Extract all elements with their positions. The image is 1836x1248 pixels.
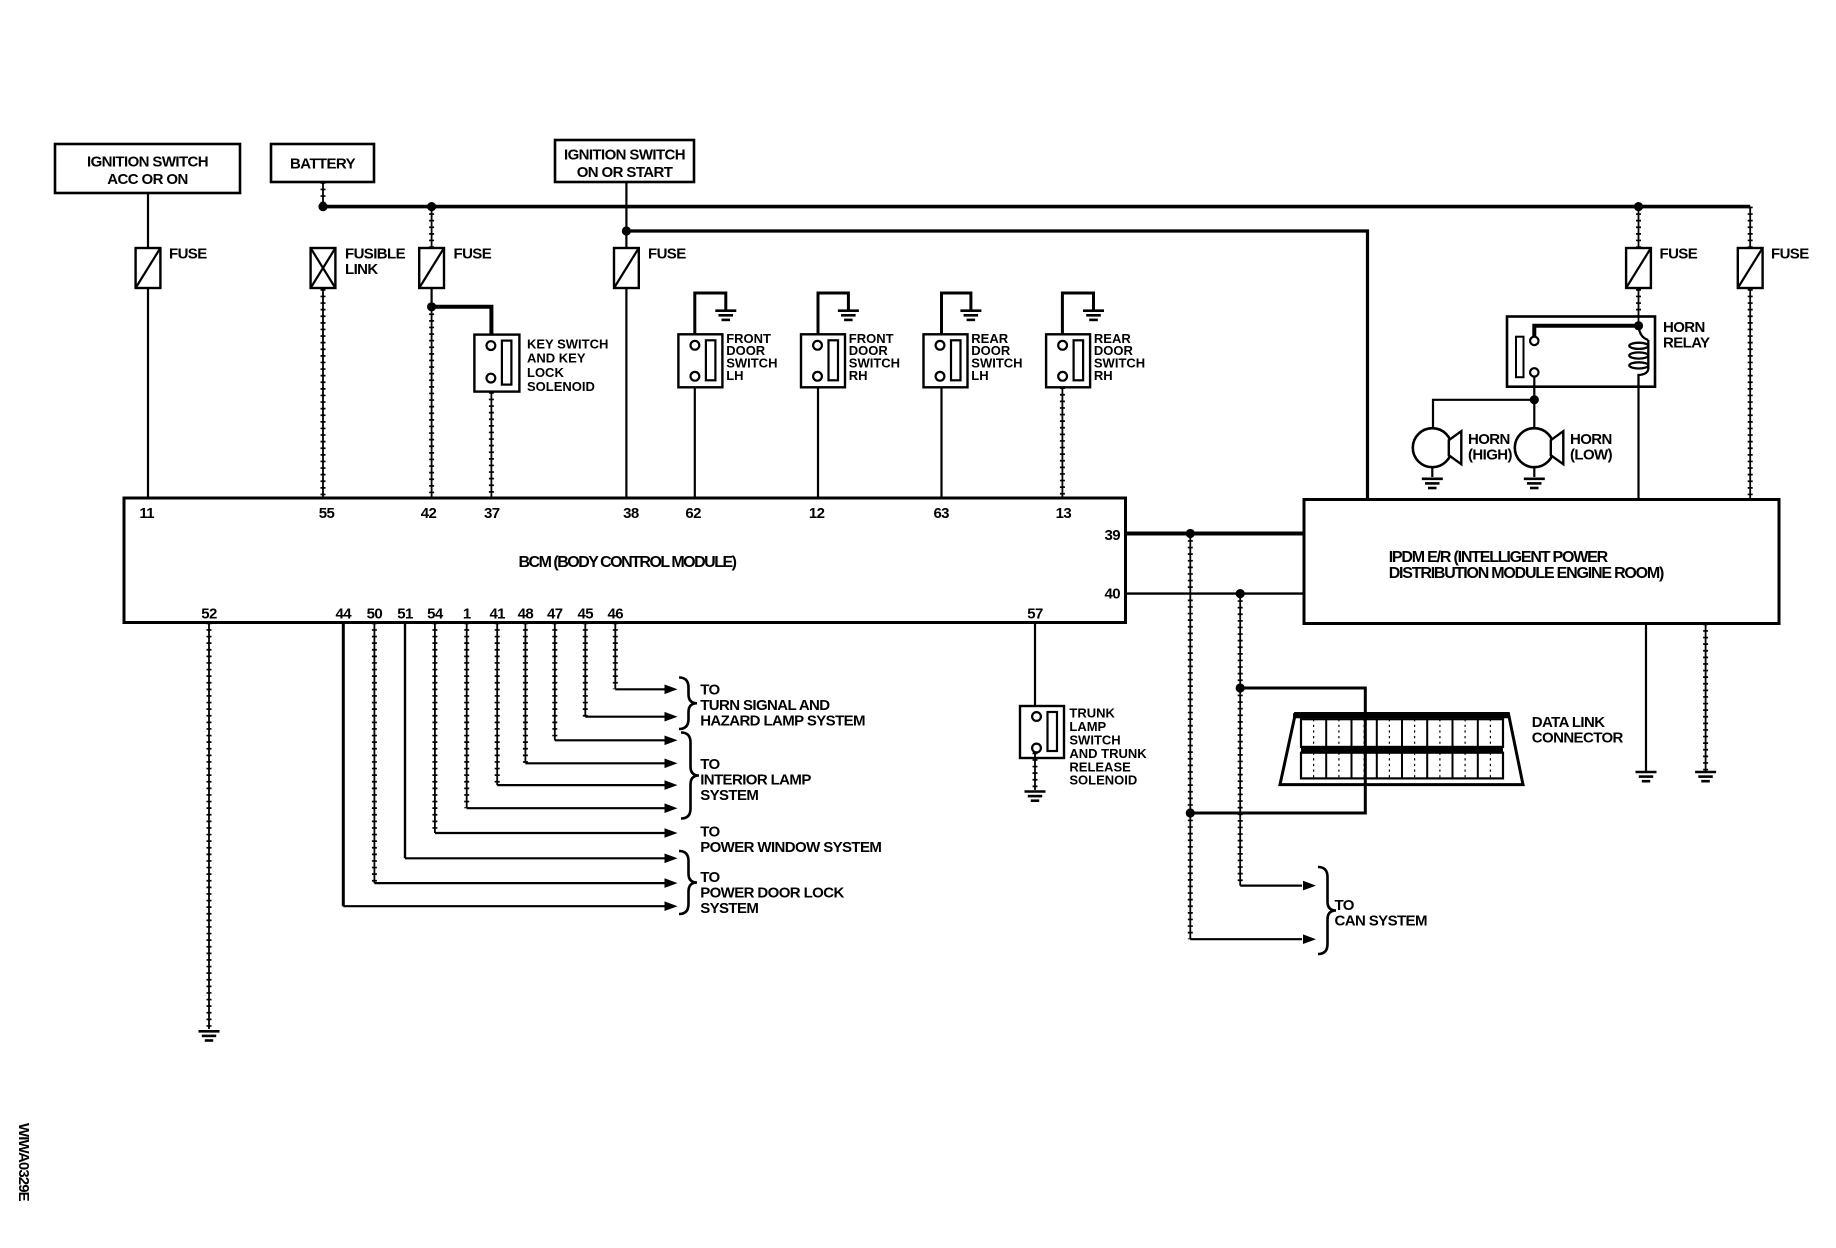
wire front door switch RH to BCM — [817, 387, 819, 498]
ground (horn (low)) — [1524, 479, 1545, 488]
svg-text:TO: TO — [700, 824, 720, 841]
svg-text:41: 41 — [489, 606, 505, 623]
label HORN (LOW) — [1570, 431, 1613, 464]
label HORN (HIGH) — [1468, 431, 1512, 464]
wire relay coil to IPDM — [1637, 387, 1639, 500]
svg-text:TO: TO — [700, 756, 720, 773]
front door switch RH — [801, 334, 845, 387]
arrow pin 46 to turn signal system — [665, 685, 678, 695]
svg-text:FUSE: FUSE — [1771, 246, 1809, 263]
wire to data link connector (bottom) — [1190, 785, 1365, 813]
wire rail to fuse 42 — [431, 207, 433, 247]
wire ignition on/start rail to IPDM — [626, 231, 1367, 500]
arrow pin 44 to power door lock system — [665, 901, 678, 911]
label TRUNK LAMP SWITCH AND TRUNK RELEASE SOLENOID — [1069, 706, 1147, 788]
wire front door switch RH to ground — [818, 293, 848, 341]
wire relay contact to coil node — [1534, 326, 1638, 337]
junction key switch branch — [427, 302, 436, 311]
svg-text:13: 13 — [1056, 505, 1072, 522]
wire pin 50 to power door lock system (vertical) — [373, 623, 375, 884]
brace turn signal group — [679, 678, 697, 730]
wire to BCM pin 42 — [431, 307, 433, 498]
wire pin 54 to power window system (horizontal) — [435, 832, 666, 834]
svg-text:38: 38 — [623, 505, 639, 522]
source box: BATTERY — [271, 144, 374, 182]
wire relay contact out — [1533, 377, 1535, 400]
svg-text:RH: RH — [849, 368, 868, 383]
svg-text:57: 57 — [1027, 606, 1043, 623]
source box: IGNITION SWITCH ON OR START — [555, 140, 694, 182]
data link connector — [1280, 714, 1523, 785]
svg-text:HORN: HORN — [1468, 431, 1510, 448]
svg-text:CAN SYSTEM: CAN SYSTEM — [1335, 913, 1427, 930]
label HORN RELAY — [1663, 319, 1710, 352]
wire CAN-H continue — [1239, 688, 1241, 886]
wire CAN-H to arrow — [1240, 884, 1302, 886]
ground (IPDM 1) — [1636, 772, 1657, 781]
brace power door lock group — [679, 851, 697, 914]
wire to horn (low) — [1533, 400, 1535, 429]
svg-text:IGNITION SWITCH: IGNITION SWITCH — [87, 154, 208, 171]
wire pin 41 to interior lamp system (horizontal) — [497, 784, 666, 786]
connector BCM (Body Control Module) — [124, 498, 1126, 623]
svg-text:SYSTEM: SYSTEM — [700, 900, 758, 917]
svg-text:(LOW): (LOW) — [1570, 447, 1613, 464]
svg-text:SYSTEM: SYSTEM — [700, 787, 758, 804]
junction ignition on/start rail — [622, 226, 631, 235]
junction CAN-L branch — [1186, 529, 1195, 538]
brace CAN system group — [1318, 867, 1336, 954]
svg-text:1: 1 — [463, 606, 471, 623]
wire key switch to BCM pin 37 — [490, 392, 492, 498]
wire pin 47 to interior lamp system (horizontal) — [555, 739, 666, 741]
label TO INTERIOR LAMP SYSTEM — [700, 756, 811, 804]
svg-text:11: 11 — [139, 505, 154, 522]
label TO POWER WINDOW SYSTEM — [700, 824, 881, 857]
svg-text:44: 44 — [336, 606, 353, 623]
svg-text:ACC OR ON: ACC OR ON — [107, 171, 187, 188]
svg-text:SOLENOID: SOLENOID — [1069, 773, 1137, 788]
wire fuse to BCM pin 38 — [625, 289, 627, 498]
svg-text:40: 40 — [1105, 586, 1121, 603]
svg-text:TO: TO — [1335, 897, 1355, 914]
svg-text:SOLENOID: SOLENOID — [527, 379, 595, 394]
junction CAN-L to DLC — [1186, 808, 1195, 817]
arrow pin 51 to power door lock system — [665, 854, 678, 864]
label REAR DOOR SWITCH RH — [1094, 331, 1145, 383]
wire pin 48 to interior lamp system (vertical) — [524, 623, 526, 764]
wire pin 45 to turn signal system (horizontal) — [585, 716, 666, 718]
wire CAN-L vertical — [1189, 534, 1191, 814]
label FRONT DOOR SWITCH LH — [726, 331, 777, 383]
junction battery rail at fuse 42 branch — [427, 202, 436, 211]
label TO TURN SIGNAL AND HAZARD LAMP SYSTEM — [700, 682, 865, 730]
svg-text:46: 46 — [608, 606, 624, 623]
wire fusible link to BCM pin 55 — [322, 289, 324, 498]
svg-text:42: 42 — [421, 505, 437, 522]
svg-text:LH: LH — [726, 368, 743, 383]
svg-text:51: 51 — [397, 606, 413, 623]
label IPDM E/R — [1389, 549, 1664, 582]
svg-text:39: 39 — [1105, 527, 1121, 544]
svg-text:KEY SWITCH: KEY SWITCH — [527, 336, 608, 351]
connector IPDM E/R (Intelligent Power Distribution Module Engine Room) — [1304, 500, 1779, 624]
wire pin 1 to interior lamp system (vertical) — [466, 623, 468, 809]
wire to data link connector (top) — [1240, 688, 1365, 714]
svg-text:HORN: HORN — [1570, 431, 1612, 448]
horn (low) — [1515, 428, 1564, 467]
fuse (horn relay feed) — [1626, 248, 1651, 288]
fuse (battery feed pin 42) — [419, 248, 444, 288]
wire IPDM to ground 2 — [1705, 624, 1707, 772]
svg-text:FUSE: FUSE — [454, 246, 492, 263]
wire pin 1 to interior lamp system (horizontal) — [467, 807, 666, 809]
svg-text:TURN SIGNAL AND: TURN SIGNAL AND — [700, 697, 830, 714]
wire rear door switch RH to BCM — [1061, 387, 1063, 498]
rear door switch RH — [1046, 334, 1090, 387]
svg-text:RELAY: RELAY — [1663, 335, 1710, 352]
wire front door switch LH to BCM — [694, 387, 696, 498]
horn relay internals — [1516, 337, 1539, 378]
svg-text:ON OR START: ON OR START — [577, 164, 673, 181]
ground (rear door switch RH) — [1083, 311, 1104, 320]
svg-text:63: 63 — [933, 505, 949, 522]
svg-text:55: 55 — [319, 505, 335, 522]
wire battery down to rail — [322, 182, 324, 207]
svg-text:HAZARD LAMP SYSTEM: HAZARD LAMP SYSTEM — [700, 713, 865, 730]
svg-text:47: 47 — [547, 606, 563, 623]
wire fuse to IPDM — [1749, 289, 1751, 500]
wire front door switch LH to ground — [695, 293, 726, 341]
wire horn (high) to ground — [1431, 467, 1433, 477]
wire pin 47 to interior lamp system (vertical) — [554, 623, 556, 741]
wire BCM pin 52 to ground — [208, 623, 210, 1030]
svg-text:FUSIBLE: FUSIBLE — [345, 246, 406, 263]
wire rear door switch LH to BCM — [940, 387, 942, 498]
wire rail to IPDM fuse — [1749, 207, 1751, 247]
label FUSIBLE LINK — [345, 246, 406, 279]
svg-text:TO: TO — [700, 869, 720, 886]
wire pin 44 to power door lock system (vertical) — [342, 623, 345, 907]
svg-text:INTERIOR LAMP: INTERIOR LAMP — [700, 772, 811, 789]
svg-text:CONNECTOR: CONNECTOR — [1532, 730, 1624, 747]
svg-text:FUSE: FUSE — [169, 246, 207, 263]
wire CAN-L continue — [1189, 813, 1191, 939]
wire ACC to fuse — [147, 193, 149, 247]
wire rear door switch LH to ground — [942, 293, 971, 341]
relay: horn relay — [1507, 317, 1655, 387]
brace interior lamp group — [681, 733, 699, 819]
svg-text:IPDM E/R (INTELLIGENT POWER: IPDM E/R (INTELLIGENT POWER — [1389, 549, 1609, 566]
wire trunk switch to ground — [1034, 753, 1036, 791]
wire ignition on/start down — [625, 182, 627, 231]
wire battery supply rail — [323, 205, 1750, 209]
label FRONT DOOR SWITCH RH — [849, 331, 900, 383]
wire pin 54 to power window system (vertical) — [434, 623, 436, 834]
wire fuse to BCM pin 11 — [147, 289, 149, 498]
label IGNITION SWITCH ON OR START — [564, 147, 685, 182]
fuse (IPDM feed) — [1738, 248, 1763, 288]
svg-text:48: 48 — [518, 606, 534, 623]
svg-text:50: 50 — [367, 606, 383, 623]
svg-text:62: 62 — [685, 505, 701, 522]
arrow pin 48 to interior lamp system — [665, 759, 678, 769]
label KEY SWITCH AND KEY LOCK SOLENOID — [527, 336, 608, 394]
wire branch to key switch — [432, 307, 492, 335]
wire pin 51 to power door lock system (horizontal) — [405, 857, 666, 859]
arrow pin 41 to interior lamp system — [665, 780, 678, 790]
svg-text:LOCK: LOCK — [527, 365, 564, 380]
svg-text:37: 37 — [484, 505, 500, 522]
wire pin 46 to turn signal system (horizontal) — [615, 688, 666, 690]
arrow pin 45 to turn signal system — [665, 712, 678, 722]
svg-text:TO: TO — [700, 682, 720, 699]
junction battery rail at horn fuse branch — [1634, 202, 1643, 211]
arrow pin 47 to interior lamp system — [665, 736, 678, 746]
wire horn fuse to relay — [1638, 289, 1640, 322]
wire pin 48 to interior lamp system (horizontal) — [525, 762, 666, 764]
svg-text:WIWA0329E: WIWA0329E — [15, 1123, 32, 1202]
svg-text:LH: LH — [971, 368, 988, 383]
ground (IPDM 2) — [1695, 772, 1716, 781]
svg-text:IGNITION SWITCH: IGNITION SWITCH — [564, 147, 685, 164]
wire to horn (high) — [1433, 400, 1534, 429]
label IGNITION SWITCH ACC OR ON — [87, 154, 208, 189]
wire IPDM to ground 1 — [1645, 624, 1647, 772]
junction horn branch — [1530, 395, 1539, 404]
label TO POWER DOOR LOCK SYSTEM — [700, 869, 844, 917]
wire BCM pin 57 to trunk switch — [1034, 623, 1036, 707]
junction CAN-H branch — [1236, 589, 1245, 598]
arrow to CAN system (lower) — [1303, 934, 1316, 944]
svg-text:45: 45 — [578, 606, 594, 623]
ground (front door switch RH) — [838, 311, 859, 320]
source box: IGNITION SWITCH ACC OR ON — [55, 144, 240, 193]
wire rail to fuse 38 — [625, 231, 627, 247]
ground (front door switch LH) — [715, 311, 736, 320]
wire through data link connector — [1364, 714, 1367, 785]
junction CAN-H to DLC — [1236, 683, 1245, 692]
svg-text:(HIGH): (HIGH) — [1468, 447, 1512, 464]
wire pin 45 to turn signal system (vertical) — [584, 623, 586, 717]
fuse (ignition ACC feed) — [136, 248, 161, 288]
label REAR DOOR SWITCH LH — [971, 331, 1022, 383]
ground (trunk switch) — [1025, 792, 1046, 801]
trunk lamp switch and trunk release solenoid — [1020, 706, 1064, 758]
svg-text:BCM (BODY CONTROL MODULE): BCM (BODY CONTROL MODULE) — [518, 554, 736, 571]
wire pin 44 to power door lock system (horizontal) — [343, 905, 666, 907]
wire rear door switch RH to ground — [1062, 293, 1093, 341]
arrow pin 1 to interior lamp system — [665, 803, 678, 813]
rear door switch LH — [924, 334, 968, 387]
ground (BCM pin 52) — [199, 1031, 220, 1040]
svg-text:RH: RH — [1094, 368, 1113, 383]
junction battery rail at pin 55 branch — [318, 202, 327, 211]
svg-text:POWER WINDOW SYSTEM: POWER WINDOW SYSTEM — [700, 839, 881, 856]
fusible link (battery feed) — [311, 248, 336, 288]
svg-text:AND KEY: AND KEY — [527, 351, 586, 366]
label TO CAN SYSTEM — [1335, 897, 1427, 930]
svg-text:FUSE: FUSE — [1660, 246, 1698, 263]
wire pin 51 to power door lock system (vertical) — [404, 623, 406, 859]
arrow pin 54 to power window system — [665, 828, 678, 838]
wire horn (low) to ground — [1533, 467, 1535, 477]
svg-text:52: 52 — [201, 606, 217, 623]
svg-text:POWER DOOR LOCK: POWER DOOR LOCK — [700, 885, 844, 902]
junction relay coil node — [1634, 321, 1643, 330]
wire pin 46 to turn signal system (vertical) — [614, 623, 616, 690]
label DATA LINK CONNECTOR — [1532, 714, 1624, 747]
wire BCM pin 39 to IPDM — [1126, 532, 1305, 536]
arrow pin 50 to power door lock system — [665, 878, 678, 888]
arrow to CAN system (upper) — [1303, 881, 1316, 891]
key switch and key lock solenoid — [474, 335, 519, 392]
relay coil — [1629, 326, 1648, 387]
svg-text:FUSE: FUSE — [648, 246, 686, 263]
horn (high) — [1413, 428, 1462, 467]
svg-text:54: 54 — [427, 606, 444, 623]
wire rail to horn fuse — [1638, 207, 1640, 247]
svg-text:HORN: HORN — [1663, 319, 1705, 336]
wire pin 41 to interior lamp system (vertical) — [496, 623, 498, 786]
front door switch LH — [678, 334, 722, 387]
wire fuse 42 down — [431, 289, 433, 307]
wire BCM pin 40 to IPDM — [1126, 592, 1305, 594]
svg-text:BATTERY: BATTERY — [290, 156, 356, 173]
wire CAN-L to arrow — [1190, 938, 1302, 940]
wire pin 50 to power door lock system (horizontal) — [374, 882, 666, 884]
ground (rear door switch LH) — [960, 311, 981, 320]
wire CAN-H vertical — [1239, 594, 1241, 688]
svg-text:DISTRIBUTION MODULE ENGINE ROO: DISTRIBUTION MODULE ENGINE ROOM) — [1389, 565, 1664, 582]
svg-text:LINK: LINK — [345, 261, 378, 278]
svg-text:12: 12 — [809, 505, 825, 522]
fuse (ignition on/start feed) — [614, 248, 639, 288]
ground (horn (high)) — [1422, 479, 1443, 488]
svg-text:DATA LINK: DATA LINK — [1532, 714, 1605, 731]
